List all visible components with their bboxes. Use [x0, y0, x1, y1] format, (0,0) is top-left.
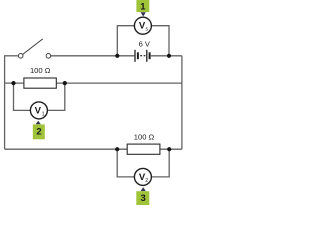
- svg-text:2: 2: [36, 127, 41, 138]
- svg-text:1: 1: [42, 112, 45, 118]
- voltmeter V1: [30, 102, 47, 119]
- svg-text:100 Ω: 100 Ω: [30, 66, 51, 75]
- battery B1: [135, 50, 150, 62]
- junction dot middle left: [11, 81, 15, 85]
- svg-text:6 V: 6 V: [139, 39, 150, 48]
- wire middle rail: [5, 82, 182, 84]
- voltmeter Vs: [134, 17, 151, 34]
- wire voltmeter Vs parallel loop: [117, 26, 169, 56]
- svg-text:2: 2: [145, 178, 148, 184]
- callout label 3: [136, 191, 149, 206]
- svg-text:3: 3: [140, 193, 145, 204]
- switch S1 open: [18, 39, 50, 58]
- arrow pointer up to V1: [36, 121, 41, 125]
- callout label 1: [136, 0, 149, 12]
- svg-text:100 Ω: 100 Ω: [134, 133, 155, 142]
- junction dot top left: [115, 54, 119, 58]
- wire bottom rail: [5, 148, 182, 150]
- wire right vertical rail: [181, 56, 183, 149]
- resistor R2 100 ohm: [127, 144, 160, 154]
- callout label 2: [33, 124, 45, 139]
- wire top rail left segment: [5, 55, 19, 57]
- wire voltmeter V2 parallel loop: [117, 149, 169, 177]
- resistor R1 100 ohm: [24, 78, 56, 88]
- svg-text:s: s: [146, 27, 149, 33]
- junction dot bottom right: [167, 147, 171, 151]
- wire voltmeter V1 parallel loop: [14, 83, 65, 110]
- junction dot bottom left: [115, 147, 119, 151]
- wire top rail right segment: [151, 55, 182, 57]
- junction dot top right: [167, 54, 171, 58]
- arrow pointer down to Vs: [141, 12, 146, 16]
- voltmeter V2: [134, 168, 151, 185]
- wire left vertical rail: [4, 55, 6, 149]
- wire top rail middle segment: [51, 55, 135, 57]
- svg-text:V: V: [35, 106, 42, 117]
- svg-text:1: 1: [140, 1, 146, 12]
- junction dot middle right: [63, 81, 67, 85]
- arrow pointer up to V2: [141, 187, 146, 191]
